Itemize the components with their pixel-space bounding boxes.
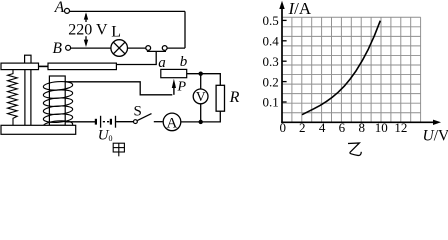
- wire battery to switch: [116, 121, 133, 123]
- svg-text:I/A: I/A: [288, 0, 312, 18]
- svg-text:0.2: 0.2: [263, 74, 279, 89]
- ammeter A: [163, 113, 181, 131]
- wire contact2 to right vertical: [167, 47, 185, 49]
- svg-text:6: 6: [339, 120, 346, 135]
- svg-text:U/V: U/V: [423, 128, 448, 145]
- svg-text:10: 10: [375, 120, 388, 135]
- lamp L: [111, 40, 128, 57]
- wire b to R branch: [187, 74, 221, 86]
- svg-text:A: A: [54, 0, 65, 16]
- grid: [282, 17, 421, 122]
- svg-text:0.4: 0.4: [263, 34, 280, 49]
- coil core: [49, 76, 65, 125]
- label Yi (乙): [348, 143, 361, 155]
- x axis: [281, 120, 441, 125]
- svg-text:L: L: [111, 23, 121, 40]
- svg-text:S: S: [134, 104, 142, 120]
- svg-text:4: 4: [319, 120, 326, 135]
- spring: [8, 70, 18, 126]
- wire B to lamp: [71, 47, 111, 49]
- contact strip bar: [48, 63, 116, 70]
- relay post: [25, 70, 31, 126]
- svg-text:0: 0: [280, 120, 287, 135]
- svg-text:a: a: [158, 55, 166, 71]
- svg-text:B: B: [53, 40, 63, 57]
- wire lamp to relay contact: [128, 47, 146, 49]
- svg-text:0.5: 0.5: [263, 13, 279, 28]
- svg-text:b: b: [180, 54, 188, 70]
- label Jia (甲): [113, 143, 124, 156]
- svg-text:0.3: 0.3: [263, 54, 279, 69]
- wire coil top to wiper: [65, 82, 172, 95]
- wire coil to battery: [65, 121, 95, 123]
- relay armature bar: [1, 63, 39, 70]
- wiper arrow P: [172, 79, 176, 95]
- wire voltmeter down: [200, 104, 202, 122]
- y axis: [279, 1, 284, 123]
- wire bottom dot to ammeter: [181, 121, 201, 123]
- relay pivot cap: [25, 55, 31, 64]
- svg-text:220 V: 220 V: [68, 22, 108, 39]
- terminal B: [66, 45, 71, 50]
- armature link: [39, 65, 49, 67]
- voltmeter V: [193, 89, 208, 104]
- svg-text:0: 0: [109, 134, 113, 143]
- svg-text:R: R: [229, 89, 240, 106]
- wire ammeter to switch: [154, 121, 163, 123]
- resistor R: [216, 85, 224, 111]
- relay base: [1, 125, 76, 134]
- wire right vertical (A side down to lamp switch): [184, 11, 186, 48]
- x labels: [280, 120, 408, 135]
- y labels: [263, 13, 280, 110]
- svg-text:2: 2: [299, 120, 306, 135]
- I-V curve: [302, 21, 380, 115]
- terminal A: [65, 8, 70, 13]
- 220 V dimension arrow: [84, 12, 88, 47]
- svg-text:V: V: [196, 89, 206, 104]
- wire contact bridge down to armature bar: [116, 51, 156, 64]
- wire top dot to voltmeter: [200, 74, 202, 89]
- junction dot bottom: [199, 120, 203, 124]
- svg-text:P: P: [177, 80, 187, 95]
- svg-text:A: A: [167, 115, 178, 131]
- y axis ticks: [282, 20, 287, 102]
- svg-text:0.1: 0.1: [263, 95, 279, 110]
- wire A top: [70, 10, 186, 12]
- rheostat box: [161, 69, 187, 77]
- 220 V label: [68, 22, 106, 36]
- switch S blade: [138, 114, 152, 121]
- coil winding: [43, 81, 73, 131]
- relay contact terminal 2: [162, 46, 167, 51]
- relay contact bridge: [147, 50, 166, 52]
- junction dot top: [199, 72, 203, 76]
- svg-text:8: 8: [358, 120, 365, 135]
- switch S contact: [134, 120, 138, 124]
- battery U0: [96, 116, 116, 128]
- relay contact terminal 1: [146, 46, 151, 51]
- svg-text:12: 12: [394, 120, 407, 135]
- wire R bottom: [201, 111, 221, 122]
